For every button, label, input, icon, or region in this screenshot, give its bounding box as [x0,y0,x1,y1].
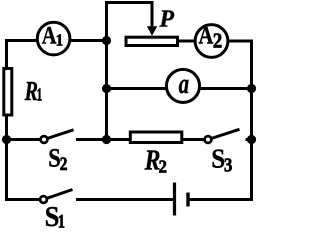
svg-text:2: 2 [213,30,223,53]
resistor R2 [130,132,182,143]
wire [228,40,254,43]
svg-text:R: R [144,143,161,176]
ammeter A2 [195,25,228,58]
svg-text:2: 2 [60,152,68,174]
svg-text:A: A [42,21,57,48]
wire [199,87,253,90]
wire [182,138,205,141]
wire [178,40,196,43]
wire [105,1,154,4]
svg-text:1: 1 [37,86,42,105]
svg-text:2: 2 [159,156,167,177]
wire [5,39,39,42]
wire [5,198,39,201]
wire [105,87,168,90]
svg-text:S: S [211,143,225,173]
svg-text:3: 3 [224,154,232,176]
resistor R1 [4,69,12,116]
switch S1 [40,190,174,203]
switch S3 [205,129,253,143]
svg-text:R: R [24,76,38,107]
node [102,135,111,144]
svg-text:A: A [199,22,214,49]
wire [105,1,108,141]
potentiometer P [126,3,178,46]
switch S2 [41,130,108,143]
svg-text:P: P [159,6,175,32]
svg-text:S: S [45,200,60,230]
node [102,36,111,45]
node [247,84,256,93]
wire [5,115,8,201]
svg-text:1: 1 [58,211,65,230]
wire [105,138,130,141]
wire [250,40,253,202]
ammeter A1 [37,22,70,55]
wire [5,39,8,69]
svg-text:S: S [48,144,60,173]
node [2,135,11,144]
galvanometer a [166,69,199,102]
wire [5,138,40,141]
svg-text:1: 1 [56,32,64,50]
node [102,84,111,93]
battery [175,183,254,216]
node [247,135,256,144]
wire [70,39,109,42]
svg-text:a: a [179,69,189,100]
